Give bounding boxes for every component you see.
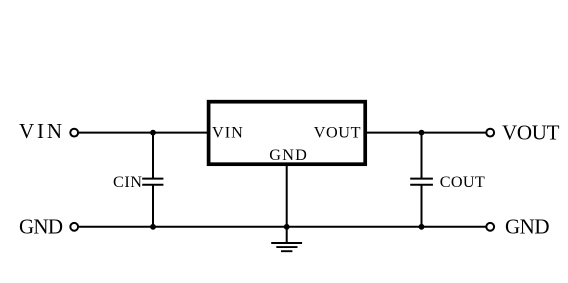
wire node C to node D xyxy=(153,226,287,228)
wire COUT bottom plate to node E xyxy=(421,185,423,227)
svg-text:VIN: VIN xyxy=(19,119,62,143)
wire U1 GND pin to ground xyxy=(286,165,288,243)
capacitor CIN xyxy=(142,179,163,185)
junction node E xyxy=(419,224,425,230)
wire node E to GND terminal xyxy=(422,226,486,228)
svg-text:VIN: VIN xyxy=(212,123,243,141)
ground xyxy=(271,243,302,251)
svg-text:GND: GND xyxy=(269,146,307,164)
wire CIN bottom plate to node C xyxy=(152,185,154,227)
wire node D to node E xyxy=(287,226,422,228)
wire GND terminal to node C xyxy=(79,226,153,228)
junction node C xyxy=(150,224,156,230)
junction node A xyxy=(150,130,156,136)
svg-text:VOUT: VOUT xyxy=(502,121,560,145)
svg-text:GND: GND xyxy=(19,215,63,239)
svg-text:GND: GND xyxy=(505,215,550,239)
terminal VIN xyxy=(70,129,78,137)
wire node B to COUT top plate xyxy=(421,133,423,179)
wire VIN terminal to node A xyxy=(79,132,153,134)
svg-text:VOUT: VOUT xyxy=(314,123,361,141)
svg-text:COUT: COUT xyxy=(440,173,485,191)
junction node B xyxy=(419,130,425,136)
wire node B to VOUT terminal xyxy=(422,132,486,134)
voltage regulator U1 xyxy=(209,102,366,165)
terminal VOUT xyxy=(486,129,494,137)
junction node D xyxy=(284,224,290,230)
wire U1 VOUT pin to node B xyxy=(365,132,421,134)
wire node A to CIN top plate xyxy=(152,133,154,179)
capacitor COUT xyxy=(410,179,433,185)
terminal GND left xyxy=(70,223,78,231)
wire node A to U1 VIN pin xyxy=(153,132,209,134)
svg-text:CIN: CIN xyxy=(113,173,142,191)
terminal GND right xyxy=(486,223,494,231)
